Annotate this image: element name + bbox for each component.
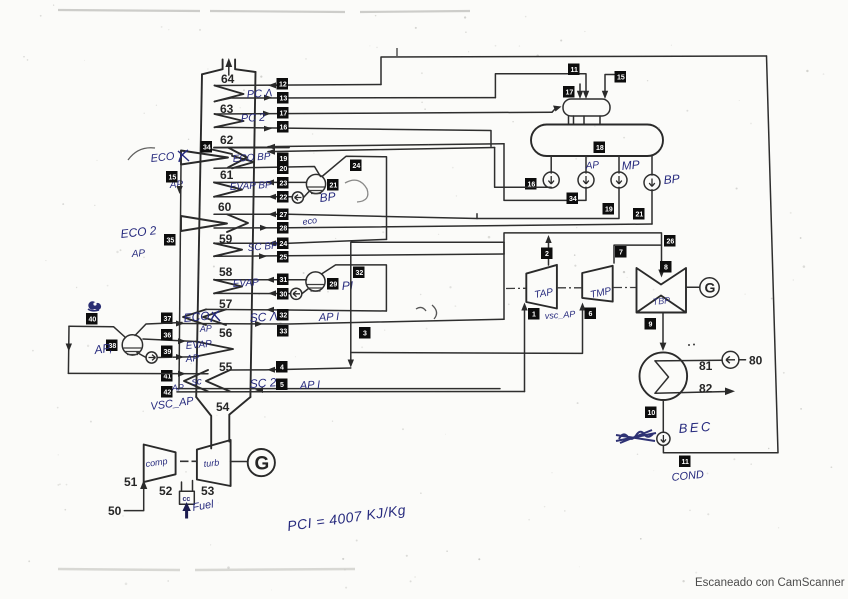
tag 11 <box>568 64 580 76</box>
PI drum steam riser to SC1 <box>322 265 387 311</box>
exchanger PC2 zigzag <box>215 114 244 127</box>
exchanger PC1 bottom line, stream 13 <box>215 98 496 102</box>
scan smudge top <box>58 10 470 12</box>
svg-text:AP I: AP I <box>318 311 340 324</box>
SC2 bottom double line, stream 5 VSC AP <box>177 389 525 392</box>
evaporator BP top line, stream 23 <box>214 181 307 183</box>
economizer ECO BP top line, stream 19 <box>268 144 504 147</box>
stream 13 riser to deaerator <box>495 74 586 98</box>
svg-text:62: 62 <box>220 133 234 147</box>
tag 16 <box>277 121 289 133</box>
cooling water line 81 <box>655 359 722 362</box>
tag 4 <box>276 361 288 373</box>
tag 23 <box>277 177 289 189</box>
svg-text:MP: MP <box>621 157 640 173</box>
fuel arrow <box>185 506 188 519</box>
svg-text:7: 7 <box>619 250 623 257</box>
tag 34 casing <box>201 141 213 153</box>
SC1 bottom line, stream 33 to collector <box>181 319 504 324</box>
evaporator AP bottom line, stream 39 <box>157 356 196 359</box>
svg-text:81: 81 <box>699 359 713 373</box>
tag 7 <box>615 246 627 258</box>
SC BP zigzag <box>214 243 242 256</box>
svg-text:AP,: AP, <box>92 341 113 357</box>
stream 15 line into deaerator <box>605 75 614 94</box>
tag 19 pump <box>603 203 615 215</box>
evaporator BP zigzag <box>214 182 242 196</box>
svg-text:AP: AP <box>198 323 212 334</box>
scan smudge bottom-left <box>58 569 355 570</box>
steam collector to LP turbine <box>504 233 662 319</box>
svg-text:SC 2: SC 2 <box>249 375 277 391</box>
svg-text:21: 21 <box>636 212 644 219</box>
svg-text:PC Λ: PC Λ <box>246 87 272 101</box>
svg-text:AP: AP <box>584 160 600 172</box>
svg-text:61: 61 <box>220 168 234 182</box>
svg-text:15: 15 <box>169 175 177 182</box>
pump MP P3 <box>611 172 627 188</box>
tag 35 <box>164 234 176 246</box>
tag 10 <box>645 407 657 419</box>
svg-text:35: 35 <box>167 238 175 245</box>
BP drum (ballon BP) <box>306 174 325 193</box>
GT shaft to generator <box>231 461 248 463</box>
TMP exhaust line, stream 7 <box>614 245 662 263</box>
svg-text:vsc_AP: vsc_AP <box>544 309 575 321</box>
svg-text:Escaneado con CamScanner: Escaneado con CamScanner <box>695 577 845 589</box>
svg-text:TBP: TBP <box>652 295 670 307</box>
gas turbine exhaust duct <box>196 397 250 448</box>
svg-text:turb: turb <box>203 457 219 469</box>
pump BEC <box>657 432 670 445</box>
superheater SC1 PI flag <box>183 309 226 325</box>
svg-text:82: 82 <box>699 382 713 396</box>
svg-text:ECO: ECO <box>150 151 175 165</box>
evaporator BP bottom line, stream 22 with circulation pump <box>214 192 309 198</box>
AP drum left downcomer <box>67 326 70 373</box>
svg-text:SC Λ: SC Λ <box>249 309 278 325</box>
tag 8 <box>660 261 672 273</box>
cooling water outlet 82 <box>655 392 728 394</box>
svg-text:37: 37 <box>164 316 172 323</box>
tag 2 <box>541 248 553 260</box>
condenser <box>640 352 688 400</box>
svg-text:8: 8 <box>664 265 668 272</box>
pump AP P1 <box>543 172 559 188</box>
BP drum steam riser to SC BP <box>322 156 387 239</box>
evaporator AP top line stub, stream 36 <box>143 339 196 342</box>
tag 5 <box>276 379 288 391</box>
svg-text:cc: cc <box>183 496 191 503</box>
tag 36 <box>161 329 173 341</box>
svg-text:ECO: ECO <box>183 309 210 325</box>
svg-text:31: 31 <box>280 277 288 284</box>
svg-text:6: 6 <box>589 311 593 318</box>
AP drum outlet pump line <box>137 353 146 358</box>
tag 30 <box>277 288 289 300</box>
air inlet line 50 <box>124 484 143 511</box>
pump AP P2 <box>578 172 594 188</box>
ECO2 top line, stream 27 run from IP pump <box>214 214 477 219</box>
tag 21 <box>327 179 339 191</box>
svg-text:22: 22 <box>280 195 288 202</box>
tag 15 deaerator <box>615 71 627 83</box>
exchanger PC2 bottom line, stream 16 feedwater run <box>215 127 492 146</box>
tag 33 <box>277 325 289 337</box>
svg-text:58: 58 <box>219 265 233 279</box>
tag 12 <box>277 78 289 90</box>
right page riser <box>664 56 778 453</box>
PI drum (ballon PI) <box>306 272 325 291</box>
SC BP bottom line, stream 25 to LP turbine <box>214 254 504 256</box>
svg-text:29: 29 <box>330 282 338 289</box>
tag 31 <box>277 274 289 286</box>
exchanger PC1 (64) top line, stream 12 <box>215 85 382 86</box>
svg-text:19: 19 <box>605 207 613 214</box>
tag 19 <box>277 153 289 165</box>
evaporator PI bottom line, stream 30 with pump <box>214 289 309 294</box>
ECO2 bottom line, stream 28 run <box>214 224 652 228</box>
svg-text:18: 18 <box>596 145 604 152</box>
svg-text:EVAP: EVAP <box>232 277 259 290</box>
svg-text:16: 16 <box>280 125 288 132</box>
blue scribble arcs near AP I <box>416 305 437 319</box>
svg-text:AP: AP <box>184 353 199 365</box>
top condensate loop line <box>381 56 767 85</box>
svg-text:BP: BP <box>663 172 680 187</box>
blue scribble crossed word <box>616 430 656 443</box>
svg-text:25: 25 <box>280 255 288 262</box>
superheater SC BP top line, stream 24 <box>214 239 387 243</box>
svg-text:34: 34 <box>569 196 577 203</box>
svg-text:41: 41 <box>164 374 172 381</box>
svg-text:56: 56 <box>219 326 233 340</box>
ECO2 zigzag <box>227 214 248 232</box>
second arrow into deaerator top <box>579 84 581 94</box>
CC connections <box>182 481 193 492</box>
AP drum steam out to stream 37 <box>135 323 182 336</box>
svg-text:28: 28 <box>280 226 288 233</box>
tag 27 <box>277 209 289 221</box>
svg-text:34: 34 <box>203 145 211 152</box>
AP drum lower line to stream 41 <box>68 372 208 374</box>
svg-text:21: 21 <box>330 183 338 190</box>
TAP exhaust riser, stream 2 <box>548 240 550 265</box>
left feedwater downcomer between ECO flags <box>179 165 181 389</box>
svg-text:EVAP BP: EVAP BP <box>230 180 273 193</box>
svg-text:PC 2: PC 2 <box>241 112 266 125</box>
svg-text:10: 10 <box>648 410 656 417</box>
tag 29 <box>327 278 339 290</box>
tag 22 <box>277 191 289 203</box>
svg-text:23: 23 <box>280 181 288 188</box>
turbine TMP <box>582 266 613 302</box>
evaporator PI zigzag <box>214 280 242 294</box>
condensate return to right riser <box>662 445 665 452</box>
svg-text:51: 51 <box>124 475 138 489</box>
AP pump2 discharge to ECO BP line <box>504 144 586 201</box>
tag 1 <box>528 308 540 320</box>
tag 17 deaerator <box>563 86 575 98</box>
svg-text:3: 3 <box>363 331 367 338</box>
svg-text:9: 9 <box>649 322 653 329</box>
TMP admission line <box>351 308 583 353</box>
exchanger PC2 (63) top line, stream 17 <box>215 112 553 114</box>
ECO BP bottom line, stream 20 <box>214 167 321 177</box>
turbine TBP double flow <box>637 268 687 313</box>
svg-text:PI: PI <box>341 278 354 293</box>
svg-text:11: 11 <box>682 459 690 466</box>
tag 25 <box>277 251 289 263</box>
svg-text:80: 80 <box>749 354 763 368</box>
svg-text:BEC: BEC <box>678 419 713 436</box>
economizer ECO3 AP flag <box>181 148 232 165</box>
tag 11 condensate <box>679 456 691 468</box>
AP drum feed line upper <box>69 326 126 337</box>
BP pump discharge run <box>651 190 653 224</box>
svg-text:30: 30 <box>280 292 288 299</box>
evaporator AP zigzag <box>196 342 233 357</box>
svg-text:39: 39 <box>164 349 172 356</box>
svg-text:52: 52 <box>159 484 173 498</box>
gas turbine expander <box>197 440 231 486</box>
svg-text:60: 60 <box>218 200 232 214</box>
AP pump discharge to PC2 line <box>495 148 552 188</box>
HRSG casing right wall <box>250 72 255 397</box>
svg-text:40: 40 <box>89 317 97 324</box>
svg-text:eco: eco <box>302 215 318 227</box>
svg-text:26: 26 <box>667 239 675 246</box>
svg-text:13: 13 <box>280 96 288 103</box>
svg-text:19: 19 <box>280 156 288 163</box>
tag 3 <box>359 327 371 339</box>
tag 15 <box>166 171 178 183</box>
steam drum 18 <box>531 125 663 157</box>
svg-text:54: 54 <box>216 400 230 414</box>
tag 20 <box>277 163 289 175</box>
tag 40 <box>86 313 98 325</box>
svg-text:32: 32 <box>356 270 364 277</box>
turbine TAP <box>526 265 557 309</box>
compressor <box>144 445 176 483</box>
generator GT G <box>248 449 275 476</box>
drum downcomers to pumps <box>551 156 652 175</box>
tag 38 <box>106 340 118 352</box>
svg-text:17: 17 <box>566 90 574 97</box>
turbine shaft dash-dot <box>506 288 636 289</box>
svg-text:11: 11 <box>571 67 579 74</box>
svg-text:36: 36 <box>164 333 172 340</box>
MP pump discharge run <box>477 187 619 218</box>
ink dots <box>688 344 690 346</box>
HRSG casing left wall <box>196 74 202 397</box>
SC2 top line, stream 4 <box>230 368 351 370</box>
tag 9 <box>645 318 657 330</box>
svg-text:EVAP: EVAP <box>185 339 212 352</box>
cooling water pump 80 <box>722 351 739 368</box>
tag 26 <box>664 235 676 247</box>
scan tick on top line <box>396 48 398 56</box>
svg-text:5: 5 <box>280 382 284 389</box>
svg-text:33: 33 <box>280 329 288 336</box>
tag 34 pump <box>567 193 579 205</box>
tag 21 pump <box>633 208 645 220</box>
tag 6 <box>585 308 597 320</box>
svg-text:BP: BP <box>319 189 336 205</box>
ECO BP zigzag <box>232 156 254 169</box>
svg-text:27: 27 <box>280 212 288 219</box>
GT shaft dashes <box>180 460 197 462</box>
svg-text:20: 20 <box>280 166 288 173</box>
tag 24 <box>277 238 289 250</box>
TBP exhaust to condenser, stream 9 <box>662 313 664 346</box>
deaerator to drum connections <box>569 116 601 125</box>
stack exit arrow <box>228 62 230 75</box>
SC1 top line, stream 32 <box>206 309 386 311</box>
svg-text:32: 32 <box>280 313 288 320</box>
deaerator vessel <box>563 99 610 116</box>
blue arc scribble near tag 24 <box>345 180 368 202</box>
tag 37 <box>161 313 173 325</box>
svg-text:50: 50 <box>108 504 122 518</box>
tag 18 <box>594 142 606 154</box>
PI circulation pump <box>291 288 302 299</box>
AP circulation pump <box>146 352 157 363</box>
svg-text:42: 42 <box>164 390 172 397</box>
svg-text:12: 12 <box>279 82 287 89</box>
tag 39 <box>161 346 173 358</box>
economizer ECO2 AP flag <box>181 216 227 231</box>
tag 32 <box>277 309 289 321</box>
generator steam G <box>700 278 719 297</box>
tag 13 <box>277 92 289 104</box>
tag 16 pump <box>525 178 537 190</box>
AP drum (ballon AP) <box>122 335 142 355</box>
TAP admission riser VSC AP <box>524 308 526 392</box>
svg-text:AP: AP <box>130 248 145 260</box>
reheat return branch line <box>351 242 504 362</box>
svg-text:G: G <box>705 280 716 296</box>
svg-text:17: 17 <box>280 111 288 118</box>
svg-text:64: 64 <box>221 72 235 86</box>
blue scribble above tag 40 <box>88 301 101 311</box>
tag 24 upper <box>350 160 362 172</box>
condensate line to BEC pump, stream 10 <box>662 400 664 432</box>
svg-text:24: 24 <box>280 241 288 248</box>
tag 28 <box>277 222 289 234</box>
svg-text:4: 4 <box>280 365 284 372</box>
ECO3 zigzag <box>214 147 289 167</box>
exchanger PC1 zigzag <box>215 86 244 102</box>
svg-text:24: 24 <box>353 163 361 170</box>
HRSG stack chimney <box>202 60 256 75</box>
combustion chamber CC <box>180 491 195 504</box>
jog in collector <box>503 242 505 254</box>
svg-text:AP I: AP I <box>299 379 321 392</box>
tag 41 <box>161 370 173 382</box>
BP circulation pump <box>292 192 303 203</box>
svg-text:2: 2 <box>545 251 549 258</box>
tag 32 upper <box>353 267 365 279</box>
svg-text:sc: sc <box>191 376 202 388</box>
pump BP P4 <box>644 175 660 191</box>
stream 17 arrow into deaerator <box>552 109 555 112</box>
blue arc scribble around ECO3 <box>128 148 155 160</box>
svg-text:15: 15 <box>617 75 625 82</box>
tag 17 <box>277 107 289 119</box>
svg-text:53: 53 <box>201 484 215 498</box>
svg-text:1: 1 <box>532 312 536 319</box>
tag 42 <box>161 386 173 398</box>
evaporator PI top line, stream 31 <box>214 279 307 281</box>
superheater SC2 AP flag <box>184 370 230 392</box>
svg-text:G: G <box>255 454 270 475</box>
